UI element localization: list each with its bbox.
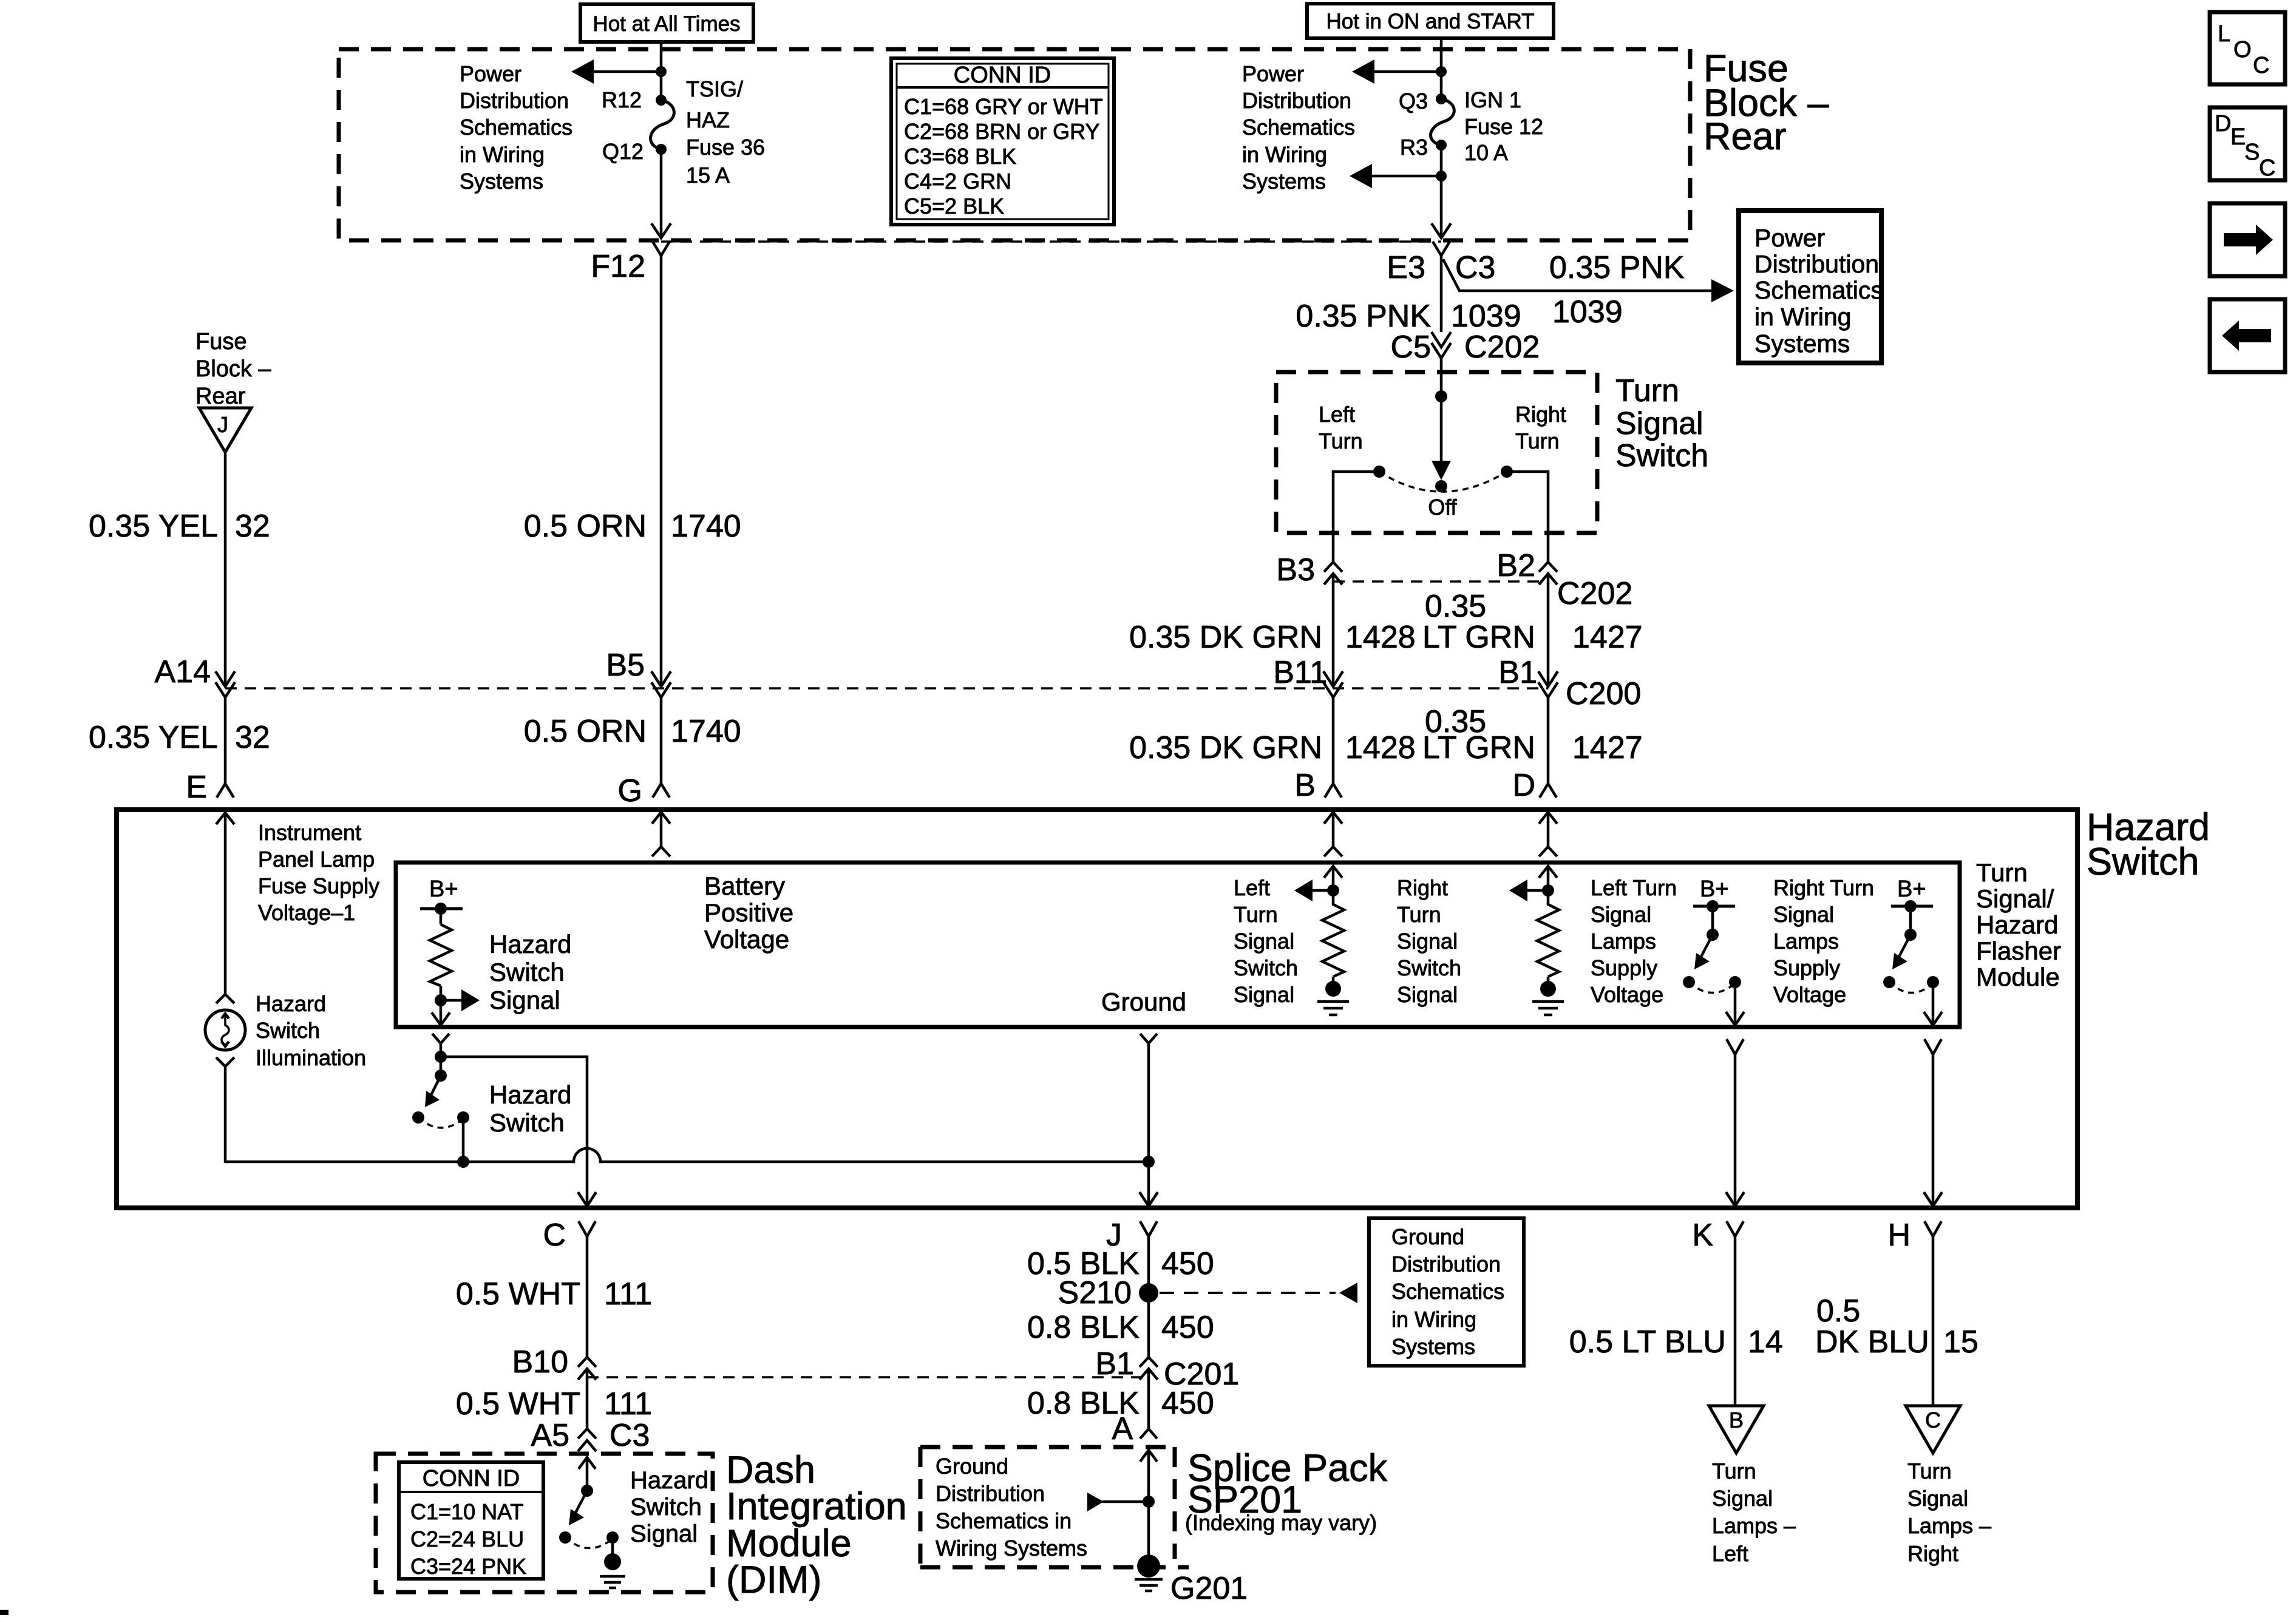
svg-text:D: D	[1512, 768, 1535, 803]
svg-text:(DIM): (DIM)	[726, 1559, 821, 1601]
svg-text:Fuse: Fuse	[195, 329, 246, 354]
fuse F12 IGN1 symbol	[1431, 93, 1455, 151]
ground symbol left resistor	[1317, 1002, 1349, 1015]
svg-text:Ground: Ground	[936, 1454, 1008, 1479]
svg-text:32: 32	[235, 720, 270, 755]
wire 0.35 LT GRN 1427 upper	[1547, 574, 1550, 686]
svg-text:Turn: Turn	[1319, 429, 1363, 453]
wire 0.35 YEL 32 lower segment	[224, 697, 227, 783]
svg-text:Power: Power	[1242, 61, 1304, 86]
svg-text:Off: Off	[1428, 495, 1457, 520]
hazard switch dashed arc	[418, 1117, 463, 1128]
arrow H out of hazard switch	[1924, 1192, 1942, 1206]
svg-text:C200: C200	[1566, 676, 1641, 711]
hazard switch closed contact node	[457, 1111, 469, 1124]
svg-text:S210: S210	[1058, 1275, 1132, 1310]
svg-text:Ground: Ground	[1391, 1224, 1464, 1249]
svg-text:B1: B1	[1498, 655, 1537, 690]
wire 0.35 YEL 32 upper segment	[224, 452, 227, 686]
svg-text:Distribution: Distribution	[1242, 88, 1351, 113]
svg-text:32: 32	[235, 509, 270, 544]
arrow K out of hazard switch	[1726, 1192, 1744, 1206]
DIM CONN ID box	[399, 1462, 543, 1579]
header box Hot in ON and START	[1307, 4, 1554, 38]
DIM closed contact node	[606, 1531, 619, 1544]
splice S210	[1139, 1283, 1158, 1303]
connector A14 at C200 (arrow and cup)	[216, 671, 235, 697]
svg-text:Turn: Turn	[1615, 373, 1679, 408]
junction node in turn signal switch	[1435, 390, 1447, 402]
svg-text:J: J	[217, 412, 228, 437]
arrow right lamps supply out of module	[1924, 1012, 1942, 1025]
wire DIM contact to ground	[611, 1537, 614, 1562]
wire left lamps supply out	[1734, 982, 1737, 1025]
svg-text:Lamps –: Lamps –	[1712, 1513, 1796, 1538]
svg-text:D: D	[2215, 111, 2231, 137]
svg-text:0.35: 0.35	[1425, 589, 1486, 624]
svg-text:450: 450	[1161, 1246, 1214, 1281]
svg-text:A5: A5	[531, 1418, 569, 1453]
arrow C out of hazard switch	[578, 1192, 596, 1206]
svg-text:Switch: Switch	[1615, 438, 1708, 473]
node on right lamps B+ rail	[1904, 900, 1917, 912]
svg-text:K: K	[1692, 1218, 1713, 1253]
label TSIG/HAZ Fuse 36 15 A	[686, 76, 765, 188]
svg-text:Turn: Turn	[1515, 429, 1560, 453]
svg-text:1428: 1428	[1345, 620, 1416, 655]
pin E entry arrow	[216, 813, 234, 994]
left lamps switch blade arrow	[1694, 935, 1713, 969]
label Right Turn	[1515, 402, 1566, 453]
svg-text:Fuse 12: Fuse 12	[1464, 114, 1543, 139]
wire C branch through hop to box edge	[586, 1148, 589, 1205]
ground G201 node	[1137, 1554, 1160, 1578]
svg-text:Schematics: Schematics	[1754, 276, 1883, 304]
svg-text:Turn: Turn	[1907, 1459, 1952, 1483]
resistor right turn signal	[1537, 890, 1559, 989]
svg-text:Ground: Ground	[1101, 988, 1186, 1016]
junction node on right fuse feed	[1436, 66, 1447, 77]
svg-text:0.35 YEL: 0.35 YEL	[89, 509, 218, 544]
svg-text:B+: B+	[1700, 876, 1729, 902]
connector B10 at C201 (cup and arrow)	[578, 1357, 596, 1380]
branch wire 0.35 PNK 1039 to power distribution	[1443, 259, 1734, 302]
svg-text:111: 111	[604, 1276, 652, 1312]
label Left Turn Signal Lamps Supply Voltage	[1591, 875, 1677, 1007]
turn signal switch dashed box	[1276, 372, 1597, 533]
svg-text:Schematics in: Schematics in	[936, 1508, 1072, 1533]
corner artifact	[0, 1610, 8, 1615]
svg-text:Power: Power	[1754, 224, 1825, 252]
left lamps closed contact node	[1729, 976, 1741, 988]
arrow J out of hazard switch	[1140, 1192, 1158, 1206]
label Battery Positive Voltage	[704, 872, 793, 954]
svg-text:0.35 PNK: 0.35 PNK	[1296, 299, 1431, 334]
svg-text:Switch: Switch	[2087, 841, 2199, 883]
svg-text:0.5 WHT: 0.5 WHT	[456, 1386, 580, 1422]
svg-text:Schematics: Schematics	[460, 115, 572, 140]
svg-text:C3: C3	[1455, 250, 1495, 285]
svg-text:Signal: Signal	[1397, 982, 1458, 1007]
svg-text:Hazard: Hazard	[1976, 910, 2058, 939]
svg-text:B1: B1	[1095, 1346, 1134, 1381]
connector B5 at C200 (arrow and cup)	[651, 671, 671, 697]
connector cup F12	[653, 242, 670, 256]
svg-text:C: C	[2253, 53, 2269, 78]
pin cup below module H branch	[1924, 1039, 1941, 1054]
wire B+ to right lamps pivot	[1909, 906, 1912, 935]
off-page triangle J	[199, 408, 251, 452]
wire fuse 12 output down	[1440, 145, 1443, 237]
nav button forward arrow	[2210, 203, 2285, 276]
svg-text:0.35 YEL: 0.35 YEL	[89, 720, 218, 755]
svg-text:Hazard: Hazard	[489, 930, 571, 958]
svg-text:111: 111	[604, 1386, 652, 1422]
svg-text:C3=68 BLK: C3=68 BLK	[904, 144, 1016, 169]
arrow into splice pack	[1140, 1450, 1157, 1567]
svg-text:Hot at All Times: Hot at All Times	[593, 12, 740, 36]
svg-text:Schematics: Schematics	[1391, 1279, 1504, 1304]
svg-text:R12: R12	[602, 87, 642, 112]
svg-text:Left: Left	[1234, 875, 1270, 900]
svg-text:Voltage: Voltage	[1773, 982, 1846, 1007]
wire lamp to bus	[224, 1066, 227, 1163]
svg-text:15: 15	[1943, 1324, 1978, 1360]
ground reference arrow to G201 wire	[1087, 1493, 1149, 1511]
svg-text:R3: R3	[1400, 135, 1428, 160]
svg-text:0.35 DK GRN: 0.35 DK GRN	[1129, 730, 1322, 765]
svg-text:0.35 PNK: 0.35 PNK	[1549, 250, 1685, 285]
svg-text:C2=68 BRN or GRY: C2=68 BRN or GRY	[904, 119, 1099, 144]
svg-text:Supply: Supply	[1591, 955, 1657, 980]
svg-text:Switch: Switch	[256, 1018, 320, 1043]
B+ rail bar	[420, 907, 463, 910]
arrow right turn signal switch signal	[1509, 880, 1548, 901]
svg-text:Signal: Signal	[1591, 902, 1651, 927]
svg-text:B10: B10	[512, 1344, 568, 1380]
right turn contact node	[1501, 466, 1513, 478]
B+ rail bar right lamps	[1891, 905, 1933, 908]
pin cup below module at hazard switch signal	[432, 1034, 449, 1043]
svg-text:Switch: Switch	[489, 958, 565, 986]
node hazard switch signal tap	[435, 994, 447, 1006]
svg-text:Left: Left	[1712, 1541, 1748, 1566]
svg-text:Right: Right	[1397, 875, 1448, 900]
label Hazard Switch Signal (DIM)	[630, 1467, 708, 1547]
svg-text:Module: Module	[1976, 963, 2060, 991]
ground symbol right resistor	[1532, 1002, 1564, 1015]
svg-text:Positive: Positive	[704, 898, 793, 927]
svg-text:C3: C3	[610, 1418, 650, 1453]
label Hazard Switch	[2087, 806, 2210, 883]
label Ground Distribution Schematics in Wiring Systems (lower)	[936, 1454, 1087, 1561]
svg-text:C2=24 BLU: C2=24 BLU	[410, 1527, 524, 1551]
svg-text:1428: 1428	[1345, 730, 1416, 765]
nav button LOC	[2210, 12, 2285, 84]
right lamps open contact node	[1883, 976, 1895, 988]
svg-text:Fuse 36: Fuse 36	[686, 135, 765, 160]
svg-text:1427: 1427	[1572, 730, 1643, 765]
svg-text:Flasher: Flasher	[1976, 937, 2061, 965]
svg-text:in Wiring: in Wiring	[1391, 1307, 1476, 1332]
connector B1 at C201 (cup and arrow)	[1140, 1357, 1158, 1380]
label Right Turn Signal Lamps Supply Voltage	[1773, 875, 1874, 1007]
wire 0.5 WHT 111 upper	[586, 1236, 589, 1357]
label Splice Pack SP201	[1185, 1447, 1388, 1535]
svg-text:C4=2 GRN: C4=2 GRN	[904, 169, 1011, 194]
svg-text:Signal: Signal	[630, 1520, 698, 1547]
ground node right resistor	[1540, 981, 1556, 997]
svg-text:G201: G201	[1170, 1571, 1248, 1606]
junction node right turn signal input	[1542, 884, 1554, 897]
hazard switch open contact node	[412, 1111, 424, 1124]
svg-text:Right: Right	[1907, 1541, 1958, 1566]
wire 0.8 BLK 450 lower	[1147, 1369, 1150, 1429]
connector line C1 fuse block (thin dashed)	[661, 240, 1441, 243]
connector B3 at C202 (cup and arrow)	[1324, 562, 1342, 585]
arrow out of fuse block (left)	[651, 223, 671, 238]
svg-text:C202: C202	[1464, 330, 1540, 365]
svg-text:B11: B11	[1273, 655, 1327, 690]
label Power Distribution Schematics in Wiring Systems (left)	[460, 61, 572, 194]
svg-text:C3=24 PNK: C3=24 PNK	[410, 1554, 526, 1579]
wire right lamps supply out	[1932, 982, 1935, 1025]
svg-text:0.35 DK GRN: 0.35 DK GRN	[1129, 620, 1322, 655]
svg-text:Signal: Signal	[1234, 929, 1294, 954]
svg-text:Signal: Signal	[489, 986, 560, 1014]
wire 0.5 BLK 450	[1147, 1236, 1150, 1357]
svg-text:15 A: 15 A	[686, 163, 730, 188]
svg-text:TSIG/: TSIG/	[686, 76, 743, 101]
wire right turn to B2	[1507, 472, 1548, 562]
svg-text:IGN 1: IGN 1	[1464, 87, 1521, 112]
connector line C201 (thin dashed)	[587, 1376, 1149, 1378]
svg-text:G: G	[618, 773, 642, 808]
pin cup below module at ground pin J	[1140, 1034, 1157, 1043]
wire H branch to box edge	[1932, 1054, 1935, 1205]
junction node hazard switch feed	[435, 1051, 447, 1063]
connector cup J below hazard switch	[1140, 1221, 1157, 1236]
svg-text:C: C	[1925, 1408, 1941, 1432]
label Fuse Block - Rear (left small)	[195, 329, 271, 409]
DIM hazard switch blade arrow	[569, 1491, 587, 1525]
wire 0.5 ORN 1740 lower segment	[660, 697, 663, 783]
svg-text:Illumination: Illumination	[256, 1045, 366, 1070]
turn signal hazard flasher module box	[396, 863, 1960, 1027]
svg-text:Voltage–1: Voltage–1	[258, 900, 355, 925]
internal bus wire with hop	[225, 1148, 1149, 1162]
svg-text:Right: Right	[1515, 402, 1566, 427]
svg-text:Turn: Turn	[1976, 858, 2028, 887]
arrow to Power Distribution (right fuse lower)	[1350, 164, 1441, 188]
connector line C202 (thin dashed)	[1333, 580, 1548, 583]
off-page triangle C	[1906, 1406, 1960, 1453]
hazard switch blade arrow	[425, 1076, 441, 1107]
svg-text:LT GRN: LT GRN	[1422, 620, 1535, 655]
svg-text:B5: B5	[606, 648, 645, 683]
boxed reference Power Distribution Schematics in Wiring Systems	[1739, 211, 1883, 363]
pin G entry arrow and cup	[652, 812, 670, 856]
connector B11 at C200 (arrow and cup)	[1323, 671, 1343, 697]
svg-text:0.8 BLK: 0.8 BLK	[1027, 1310, 1140, 1345]
svg-text:Distribution: Distribution	[1391, 1252, 1501, 1276]
svg-text:in Wiring: in Wiring	[1242, 142, 1327, 167]
svg-text:Signal: Signal	[1712, 1486, 1773, 1511]
svg-text:Block –: Block –	[195, 356, 271, 382]
ground node left resistor	[1325, 981, 1341, 997]
svg-text:A14: A14	[154, 654, 211, 690]
svg-text:450: 450	[1161, 1386, 1214, 1421]
svg-text:Left: Left	[1319, 402, 1355, 427]
label Left Turn Signal Switch Signal	[1234, 875, 1298, 1007]
resistor R hazard switch signal	[430, 909, 452, 1025]
svg-text:Lamps: Lamps	[1773, 929, 1839, 954]
svg-text:(Indexing may vary): (Indexing may vary)	[1185, 1510, 1377, 1535]
svg-text:B2: B2	[1496, 548, 1535, 583]
svg-text:Turn: Turn	[1234, 902, 1278, 927]
arrow left turn signal switch signal	[1294, 880, 1333, 901]
DIM ground symbol	[600, 1576, 625, 1588]
node on B+ rail	[435, 903, 447, 915]
svg-text:Battery: Battery	[704, 872, 785, 900]
svg-text:Signal: Signal	[1234, 982, 1294, 1007]
junction node on bus at hazard switch	[457, 1156, 469, 1168]
nav button DESC	[2210, 107, 2285, 181]
label Dash Integration Module (DIM)	[726, 1449, 907, 1601]
svg-text:Switch: Switch	[1234, 955, 1298, 980]
svg-text:E: E	[2230, 124, 2246, 150]
wire fuse 36 output down	[660, 149, 663, 237]
svg-text:B+: B+	[429, 876, 458, 902]
svg-text:in Wiring: in Wiring	[1754, 303, 1851, 331]
svg-text:C: C	[543, 1218, 566, 1253]
svg-text:Hazard: Hazard	[489, 1080, 571, 1109]
svg-text:1039: 1039	[1451, 299, 1521, 334]
svg-text:Wiring Systems: Wiring Systems	[936, 1536, 1087, 1561]
svg-text:Switch: Switch	[489, 1108, 565, 1137]
svg-text:Fuse Supply: Fuse Supply	[258, 873, 379, 898]
svg-text:1427: 1427	[1572, 620, 1643, 655]
svg-text:E: E	[186, 770, 207, 805]
wire from Hot in ON and START into fuse block	[1440, 38, 1443, 99]
dashed reference line from S210	[1160, 1283, 1357, 1303]
svg-text:C1=10 NAT: C1=10 NAT	[410, 1499, 523, 1524]
svg-text:Hazard: Hazard	[256, 991, 326, 1016]
fuse block - rear dashed box	[339, 49, 1690, 240]
fuse F36 TSIG/HAZ symbol	[651, 95, 674, 155]
connector A5 C3 (cup and arrow)	[578, 1429, 596, 1451]
junction node on left fuse feed	[656, 66, 667, 77]
wire 0.35 DK GRN 1428 lower	[1332, 697, 1335, 783]
label Left Turn	[1319, 402, 1363, 453]
wire 0.5 WHT 111 lower	[586, 1369, 589, 1429]
label Turn Signal Lamps - Left	[1712, 1459, 1796, 1566]
lamp socket chevron lower	[216, 1057, 234, 1066]
wire contact to bus	[462, 1117, 465, 1162]
splice pack dashed left edge	[1173, 1447, 1177, 1559]
svg-text:Signal: Signal	[1907, 1486, 1968, 1511]
svg-text:E3: E3	[1387, 250, 1425, 285]
wire 0.35 LT GRN 1427 lower	[1547, 697, 1550, 783]
svg-text:Left Turn: Left Turn	[1591, 875, 1677, 900]
svg-text:Systems: Systems	[1391, 1334, 1475, 1359]
label Hazard Switch Signal (module)	[489, 930, 571, 1014]
svg-text:Switch: Switch	[1397, 955, 1461, 980]
connector line C200 (thin dashed)	[225, 687, 1548, 690]
svg-text:Turn: Turn	[1397, 902, 1441, 927]
label Fuse Block - Rear	[1703, 47, 1829, 158]
right lamps dashed arc	[1889, 982, 1933, 993]
svg-text:Hot in ON and START: Hot in ON and START	[1326, 10, 1535, 33]
svg-text:Systems: Systems	[460, 169, 543, 194]
wire left turn to B3	[1333, 472, 1379, 562]
connector cup D at hazard switch	[1540, 784, 1557, 798]
svg-text:DK BLU: DK BLU	[1815, 1324, 1929, 1360]
wire B+ to left lamps pivot	[1711, 906, 1714, 935]
label Power Distribution Schematics (right fuse)	[1242, 61, 1355, 194]
switch common arrow	[1432, 461, 1451, 480]
label Turn Signal/Hazard Flasher Module	[1976, 858, 2061, 991]
off-page triangle B	[1709, 1406, 1764, 1453]
wire to hazard switch contact	[440, 1043, 443, 1076]
arrow hazard switch signal	[441, 989, 480, 1011]
svg-text:B3: B3	[1276, 552, 1315, 588]
node on left lamps B+ rail	[1707, 900, 1719, 912]
svg-text:Voltage: Voltage	[1591, 982, 1663, 1007]
svg-text:Signal/: Signal/	[1976, 884, 2054, 913]
svg-text:HAZ: HAZ	[686, 107, 730, 132]
wire into turn signal switch	[1440, 358, 1443, 464]
svg-text:0.5 WHT: 0.5 WHT	[456, 1276, 580, 1312]
resistor left turn signal	[1322, 890, 1344, 989]
svg-text:0.5: 0.5	[1816, 1293, 1860, 1329]
junction node left turn signal input	[1327, 884, 1339, 897]
label Right Turn Signal Switch Signal	[1397, 875, 1461, 1007]
svg-text:Hazard: Hazard	[630, 1467, 708, 1494]
svg-text:Signal: Signal	[1615, 406, 1703, 441]
left lamps dashed arc	[1689, 982, 1735, 993]
svg-text:C202: C202	[1557, 576, 1632, 611]
svg-text:Distribution: Distribution	[460, 88, 569, 113]
DIM ground node	[604, 1553, 621, 1570]
arrow out of module (hazard switch signal pin)	[432, 1012, 450, 1025]
svg-text:S: S	[2244, 140, 2260, 165]
svg-text:Q12: Q12	[602, 139, 644, 164]
connector cup K below hazard switch	[1727, 1221, 1744, 1236]
left lamps open contact node	[1683, 976, 1695, 988]
hazard switch pivot node	[435, 1070, 447, 1082]
svg-text:Panel Lamp: Panel Lamp	[258, 847, 375, 872]
svg-text:Turn: Turn	[1712, 1459, 1756, 1483]
label IGN 1 Fuse 12 10 A	[1464, 87, 1543, 165]
svg-text:Systems: Systems	[1754, 330, 1850, 358]
connector B1 at C200 (arrow and cup)	[1538, 671, 1558, 697]
svg-text:A: A	[1112, 1411, 1133, 1446]
wire K branch to box edge	[1734, 1054, 1737, 1205]
svg-text:14: 14	[1748, 1324, 1783, 1360]
junction node on G201 wire	[1143, 1496, 1155, 1508]
connector cup A at splice pack	[1140, 1429, 1157, 1439]
pin D entry arrows and cup	[1539, 812, 1557, 890]
svg-text:C: C	[2259, 155, 2275, 181]
ground distribution dashed box (lower)	[920, 1447, 1189, 1567]
connector cup G at hazard switch	[653, 784, 670, 798]
svg-text:0.5 ORN: 0.5 ORN	[524, 714, 647, 749]
left lamps switch pivot node	[1707, 929, 1719, 941]
svg-text:H: H	[1887, 1218, 1911, 1253]
svg-text:C1=68 GRY or WHT: C1=68 GRY or WHT	[904, 94, 1103, 119]
svg-text:B: B	[1294, 768, 1316, 803]
